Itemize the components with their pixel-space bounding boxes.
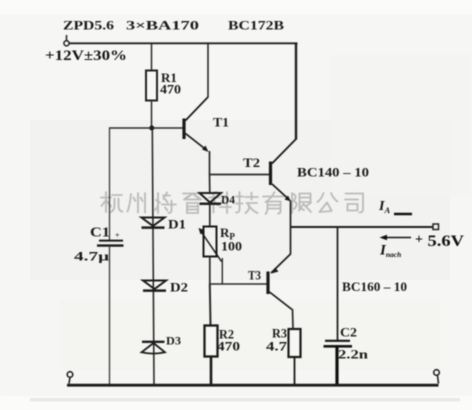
wire mid vertical (D4 to Rp) — [209, 204, 211, 227]
wire T3 base horizontal — [210, 283, 267, 285]
transistor T1 — [184, 97, 209, 152]
wire R3 bottom lead — [294, 357, 296, 385]
svg-text:+: + — [115, 231, 120, 240]
svg-text:BC172B: BC172B — [228, 18, 284, 33]
svg-text:+: + — [415, 233, 423, 248]
svg-text:470: 470 — [160, 82, 181, 97]
wire base horizontal — [110, 127, 184, 129]
terminal output square — [433, 224, 439, 230]
scan smear bottom edge — [30, 398, 460, 402]
wire T1 collector vertical — [207, 43, 209, 97]
wire C2 top lead — [337, 227, 339, 340]
svg-text:100: 100 — [221, 240, 242, 254]
svg-text:C2: C2 — [340, 325, 357, 340]
svg-text:D3: D3 — [166, 334, 181, 348]
arrow Inach (points left) — [380, 235, 412, 240]
resistor R2 — [205, 326, 218, 357]
wire left vertical upper (to C1) — [109, 127, 111, 240]
wire R1 top lead — [151, 43, 153, 70]
terminal bottom left — [67, 372, 73, 384]
svg-text:+12V±30%: +12V±30% — [45, 48, 127, 64]
svg-text:C1: C1 — [90, 226, 110, 241]
svg-text:470: 470 — [217, 339, 240, 354]
svg-text:ZPD5.6: ZPD5.6 — [63, 18, 115, 33]
svg-text:D2: D2 — [170, 280, 188, 295]
svg-text:T2: T2 — [243, 155, 260, 170]
wire Rp wiper stub — [221, 258, 223, 284]
wire left vertical lower (C1 to rail) — [109, 246, 111, 385]
svg-text:5.6V: 5.6V — [428, 233, 465, 250]
capacitor C2 — [324, 341, 353, 347]
arrow IA — [394, 213, 412, 216]
resistor R3 — [289, 329, 301, 357]
wire mid vertical (node to R2) — [209, 284, 212, 326]
wire R1 bottom lead — [151, 101, 153, 129]
svg-text:D4: D4 — [221, 193, 235, 207]
wire T2 collector vertical — [295, 43, 297, 139]
transistor T3 — [268, 254, 292, 310]
wire C2 bottom lead — [335, 346, 338, 384]
wire mid vertical (Rp to T3 base node) — [209, 257, 211, 285]
diode D4 — [200, 193, 222, 204]
resistor R1 — [146, 71, 157, 101]
transistor T2 — [271, 139, 297, 202]
wire R2 bottom lead — [210, 357, 213, 385]
capacitor C1 — [97, 241, 124, 246]
terminal +12V input — [64, 35, 69, 46]
wire T3 collector vertical — [292, 309, 295, 329]
wire bottom rail — [67, 384, 439, 387]
svg-text:BC140 – 10: BC140 – 10 — [297, 165, 369, 180]
diode D3 (points up) — [142, 342, 166, 354]
svg-text:3×BA170: 3×BA170 — [126, 18, 199, 33]
wire output line — [291, 226, 434, 228]
wire T1 emitter vertical — [209, 151, 211, 175]
diode D1 — [142, 218, 165, 228]
svg-text:4.7μ: 4.7μ — [74, 249, 110, 264]
svg-text:T3: T3 — [248, 268, 261, 283]
potentiometer Rp — [199, 227, 222, 262]
watermark 杭州将睿科技有限公司 — [101, 192, 363, 214]
junction base node dot — [149, 126, 154, 131]
wire top rail — [69, 42, 298, 44]
wire diode chain vertical — [152, 128, 154, 385]
svg-text:T1: T1 — [213, 115, 229, 130]
svg-text:2.2n: 2.2n — [338, 347, 369, 362]
svg-text:4.7: 4.7 — [266, 339, 288, 354]
wire mid vertical (junction to D4) — [209, 175, 211, 194]
svg-text:BC160 – 10: BC160 – 10 — [342, 279, 407, 294]
terminal bottom right — [434, 370, 440, 384]
wire T2 emitter vertical — [290, 201, 292, 255]
diode D2 — [143, 281, 166, 291]
wire T2 base horizontal — [210, 174, 270, 176]
svg-text:D1: D1 — [168, 217, 186, 232]
